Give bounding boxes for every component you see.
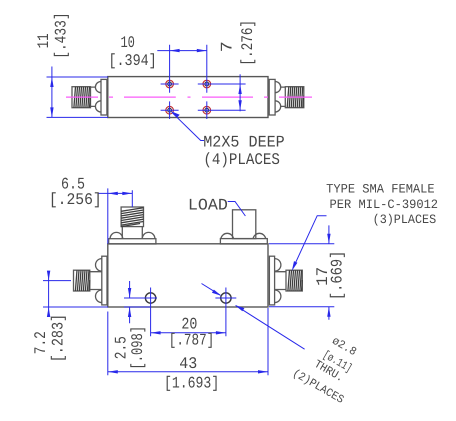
svg-text:(3)PLACES: (3)PLACES: [373, 212, 437, 227]
svg-text:[.098]: [.098]: [129, 326, 147, 370]
svg-text:[.283]: [.283]: [49, 314, 67, 362]
svg-text:TYPE SMA FEMALE: TYPE SMA FEMALE: [326, 181, 435, 196]
svg-text:20: 20: [181, 315, 197, 333]
svg-text:10: 10: [120, 34, 135, 52]
svg-text:[.669]: [.669]: [329, 251, 347, 300]
svg-text:43: 43: [179, 355, 197, 373]
svg-text:PER MIL-C-39012: PER MIL-C-39012: [330, 197, 439, 212]
svg-text:[.787]: [.787]: [169, 332, 215, 350]
svg-text:M2X5 DEEP: M2X5 DEEP: [203, 133, 285, 151]
svg-text:11: 11: [35, 33, 53, 48]
svg-text:[.394]: [.394]: [108, 52, 156, 70]
svg-text:(4)PLACES: (4)PLACES: [203, 151, 280, 169]
svg-text:[.256]: [.256]: [49, 191, 102, 209]
svg-text:[1.693]: [1.693]: [164, 374, 219, 392]
svg-text:[.433]: [.433]: [53, 12, 71, 58]
svg-text:7: 7: [219, 41, 237, 52]
svg-text:[.276]: [.276]: [239, 20, 257, 66]
svg-text:7.2: 7.2: [32, 331, 50, 354]
svg-text:LOAD: LOAD: [188, 197, 228, 215]
